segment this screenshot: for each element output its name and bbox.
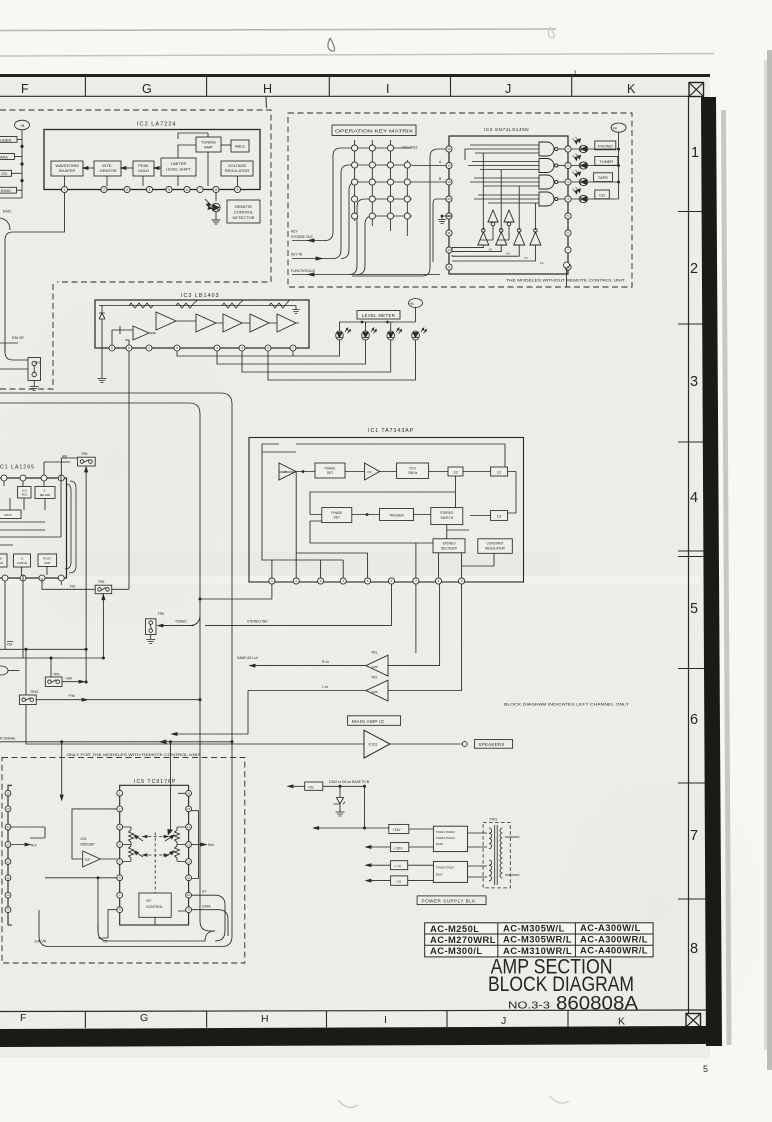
svg-text:APE: APE bbox=[0, 154, 8, 159]
svg-text:UNER: UNER bbox=[0, 137, 11, 142]
svg-text:4: 4 bbox=[690, 490, 698, 506]
svg-text:SWITCH: SWITCH bbox=[441, 516, 454, 520]
svg-text:+ 20V: + 20V bbox=[394, 846, 404, 850]
svg-text:STEREO: STEREO bbox=[440, 511, 454, 515]
svg-text:C1 LA1265: C1 LA1265 bbox=[0, 465, 35, 471]
svg-text:CD: CD bbox=[599, 192, 605, 197]
svg-text:AC-A300WR/L: AC-A300WR/L bbox=[580, 933, 648, 944]
svg-text:TR103,TR104: TR103,TR104 bbox=[436, 836, 455, 840]
svg-text:3: 3 bbox=[567, 180, 569, 184]
svg-text:14: 14 bbox=[506, 252, 510, 256]
svg-text:8: 8 bbox=[690, 941, 698, 957]
svg-text:5: 5 bbox=[690, 601, 698, 617]
svg-text:IC101: IC101 bbox=[369, 743, 378, 747]
svg-text:12: 12 bbox=[540, 261, 544, 265]
svg-text:16: 16 bbox=[447, 147, 451, 151]
svg-text:9: 9 bbox=[237, 188, 239, 192]
svg-text:9: 9 bbox=[448, 265, 450, 269]
svg-text:AMP: AMP bbox=[372, 690, 379, 694]
svg-text:5: 5 bbox=[703, 1064, 708, 1074]
svg-text:L ch: L ch bbox=[322, 685, 328, 689]
svg-text:T21~T316: T21~T316 bbox=[402, 146, 418, 150]
svg-text:+5V: +5V bbox=[308, 786, 315, 790]
svg-text:NO.3-3: NO.3-3 bbox=[508, 1001, 551, 1012]
svg-text:+13V: +13V bbox=[393, 828, 402, 832]
svg-text:G: G bbox=[142, 82, 152, 96]
svg-text:TR101,TR102: TR101,TR102 bbox=[436, 830, 455, 834]
svg-text:76KHz: 76KHz bbox=[408, 471, 418, 475]
svg-text:D105: D105 bbox=[436, 842, 444, 846]
svg-text:MAIN AMP IC: MAIN AMP IC bbox=[352, 719, 385, 724]
svg-text:DETECTOR: DETECTOR bbox=[233, 215, 255, 220]
svg-text:8: 8 bbox=[567, 265, 569, 269]
svg-text:I: I bbox=[384, 1014, 387, 1026]
svg-text:KEY: KEY bbox=[291, 230, 299, 234]
svg-text:S -: S - bbox=[43, 489, 47, 493]
svg-text:S: S bbox=[21, 557, 23, 561]
svg-text:TR2: TR2 bbox=[371, 676, 377, 680]
svg-text:T901: T901 bbox=[490, 818, 498, 822]
svg-text:REMOTE: REMOTE bbox=[235, 204, 252, 209]
svg-text:TR8: TR8 bbox=[81, 452, 88, 456]
svg-text:J: J bbox=[505, 82, 511, 96]
svg-text:11: 11 bbox=[7, 876, 10, 880]
svg-text:860808A: 860808A bbox=[556, 994, 638, 1015]
svg-text:PHASE: PHASE bbox=[325, 467, 336, 471]
svg-text:AM: AM bbox=[62, 455, 67, 459]
svg-text:TAPE: TAPE bbox=[598, 175, 608, 180]
svg-text:13: 13 bbox=[447, 197, 451, 201]
svg-text:AC-M305WR/L: AC-M305WR/L bbox=[503, 934, 572, 945]
svg-text:15: 15 bbox=[7, 807, 10, 811]
svg-text:TR5: TR5 bbox=[158, 612, 165, 616]
svg-text:FM: FM bbox=[70, 585, 75, 589]
svg-text:K: K bbox=[627, 82, 636, 96]
svg-text:+B: +B bbox=[409, 302, 414, 306]
svg-text:TUNER: TUNER bbox=[599, 159, 613, 164]
svg-text:-GRATOR: -GRATOR bbox=[98, 168, 116, 173]
svg-text:TRIGGER: TRIGGER bbox=[389, 513, 404, 517]
svg-text:AM-IF: AM-IF bbox=[4, 513, 12, 517]
svg-text:3: 3 bbox=[690, 374, 698, 390]
svg-text:K: K bbox=[618, 1016, 625, 1028]
svg-text:− 7V: − 7V bbox=[394, 880, 402, 884]
svg-text:TR9: TR9 bbox=[53, 673, 60, 677]
svg-text:6: 6 bbox=[186, 188, 188, 192]
svg-text:5: 5 bbox=[567, 214, 569, 218]
svg-text:METER: METER bbox=[40, 493, 51, 497]
svg-text:F: F bbox=[21, 82, 29, 96]
svg-text:PHASE: PHASE bbox=[331, 511, 342, 515]
svg-text:IC6: IC6 bbox=[81, 837, 87, 841]
svg-text:IC1 TA7343AP: IC1 TA7343AP bbox=[368, 428, 414, 434]
svg-text:ONLY FOR THE MODELES WITH REMO: ONLY FOR THE MODELES WITH REMOTE CONTROL… bbox=[66, 753, 200, 757]
svg-text:CURVE: CURVE bbox=[17, 561, 27, 565]
svg-text:SPEAKERS: SPEAKERS bbox=[479, 742, 505, 747]
svg-text:KEY IN: KEY IN bbox=[291, 253, 303, 257]
svg-text:FUNCTION A,B: FUNCTION A,B bbox=[291, 269, 315, 273]
svg-text:8: 8 bbox=[215, 188, 217, 192]
svg-text:1: 1 bbox=[691, 145, 699, 161]
svg-text:10: 10 bbox=[187, 893, 190, 897]
svg-text:R SIGNAL: R SIGNAL bbox=[0, 737, 16, 741]
svg-text:VCO: VCO bbox=[409, 467, 416, 471]
svg-text:F: F bbox=[20, 1012, 26, 1024]
svg-text:4: 4 bbox=[149, 188, 151, 192]
svg-text:TR1: TR1 bbox=[371, 651, 377, 655]
svg-text:16: 16 bbox=[7, 791, 10, 795]
svg-text:+ 7V: + 7V bbox=[394, 865, 402, 869]
svg-text:EMC: EMC bbox=[3, 210, 12, 214]
svg-text:LIMITER: LIMITER bbox=[171, 161, 187, 166]
svg-text:AMP: AMP bbox=[204, 145, 213, 150]
svg-text:+FM: +FM bbox=[68, 694, 75, 698]
svg-text:D162 or D5 on BASE PCB: D162 or D5 on BASE PCB bbox=[329, 780, 370, 784]
svg-text:3: 3 bbox=[126, 188, 128, 192]
svg-text:14: 14 bbox=[187, 825, 190, 829]
svg-text:ADJ: ADJ bbox=[21, 493, 27, 497]
svg-text:LEVEL SHIFT: LEVEL SHIFT bbox=[166, 167, 192, 172]
svg-text:OPERATION KEY MATRIX: OPERATION KEY MATRIX bbox=[335, 129, 414, 135]
svg-text:1/2: 1/2 bbox=[497, 515, 502, 519]
svg-text:BLOCK DIAGRAM INDICATES LEFT C: BLOCK DIAGRAM INDICATES LEFT CHANNEL ONL… bbox=[504, 702, 630, 706]
svg-text:14: 14 bbox=[7, 825, 10, 829]
svg-text:CONSTANT: CONSTANT bbox=[486, 542, 503, 546]
svg-text:REGULATOR: REGULATOR bbox=[225, 168, 250, 173]
svg-text:IC3 LB1403: IC3 LB1403 bbox=[181, 293, 219, 299]
svg-text:AMP: AMP bbox=[44, 561, 51, 565]
svg-text:DATA: DATA bbox=[202, 905, 211, 909]
svg-text:STEREO: STEREO bbox=[442, 542, 456, 546]
svg-text:TR106,TR107: TR106,TR107 bbox=[436, 866, 455, 870]
svg-text:AC-M305W/L: AC-M305W/L bbox=[503, 923, 565, 934]
svg-text:E/M VR: E/M VR bbox=[12, 336, 24, 340]
svg-text:CD: CD bbox=[2, 171, 8, 176]
svg-text:TR6: TR6 bbox=[98, 580, 105, 584]
svg-text:G: G bbox=[140, 1012, 148, 1024]
svg-text:2: 2 bbox=[690, 261, 698, 277]
svg-text:IC5 TC9176P: IC5 TC9176P bbox=[134, 779, 176, 785]
svg-text:M5218P: M5218P bbox=[81, 843, 96, 847]
svg-text:STORBE OUT: STORBE OUT bbox=[291, 235, 313, 239]
svg-text:6: 6 bbox=[567, 231, 569, 235]
svg-text:CONTROL: CONTROL bbox=[146, 905, 163, 909]
svg-text:13: 13 bbox=[187, 843, 190, 847]
svg-text:FM: FM bbox=[7, 643, 12, 647]
svg-text:7: 7 bbox=[690, 828, 698, 844]
svg-text:BUF: BUF bbox=[85, 858, 91, 862]
svg-text:14: 14 bbox=[447, 180, 451, 184]
svg-text:E/M VR: E/M VR bbox=[35, 940, 47, 944]
svg-text:DET: DET bbox=[327, 471, 333, 475]
svg-text:ST: ST bbox=[202, 890, 206, 894]
svg-text:TR7: TR7 bbox=[34, 361, 41, 365]
svg-text:7: 7 bbox=[567, 248, 569, 252]
svg-text:1/2: 1/2 bbox=[453, 471, 458, 475]
svg-text:VR: VR bbox=[146, 899, 151, 903]
svg-text:AC-M270WRL: AC-M270WRL bbox=[430, 934, 496, 945]
svg-text:THE MODELES WITHOUT REMOTE CON: THE MODELES WITHOUT REMOTE CONTROL UNIT bbox=[506, 279, 626, 283]
svg-text:15: 15 bbox=[447, 164, 451, 168]
svg-text:POWER SUPPLY BLK: POWER SUPPLY BLK bbox=[422, 898, 477, 903]
svg-text:13: 13 bbox=[524, 256, 528, 260]
svg-text:Rch: Rch bbox=[31, 843, 37, 847]
svg-text:2: 2 bbox=[567, 164, 569, 168]
svg-text:5: 5 bbox=[168, 188, 170, 192]
svg-text:HOLD: HOLD bbox=[138, 168, 149, 173]
svg-text:TR10: TR10 bbox=[30, 690, 38, 694]
svg-text:STEREO IND: STEREO IND bbox=[247, 620, 268, 624]
svg-text:1/2: 1/2 bbox=[497, 471, 502, 475]
svg-text:Rch: Rch bbox=[208, 843, 214, 847]
svg-text:PHONO: PHONO bbox=[598, 143, 613, 148]
svg-text:4: 4 bbox=[567, 197, 569, 201]
svg-text:SHAPER: SHAPER bbox=[59, 168, 76, 173]
svg-text:10: 10 bbox=[447, 248, 451, 252]
svg-text:R ch: R ch bbox=[322, 660, 329, 664]
svg-text:DECODER: DECODER bbox=[441, 547, 458, 551]
svg-text:I: I bbox=[386, 82, 389, 96]
svg-text:DET: DET bbox=[334, 516, 340, 520]
svg-text:+B: +B bbox=[612, 126, 617, 130]
svg-text:TUNED: TUNED bbox=[175, 620, 187, 624]
svg-text:BLOCK DIAGRAM: BLOCK DIAGRAM bbox=[488, 972, 634, 996]
svg-text:+B: +B bbox=[20, 124, 25, 128]
svg-text:POST: POST bbox=[43, 557, 51, 561]
svg-text:12: 12 bbox=[187, 860, 190, 864]
svg-text:6: 6 bbox=[690, 712, 698, 728]
svg-text:16: 16 bbox=[187, 791, 190, 795]
svg-text:11: 11 bbox=[447, 231, 450, 235]
svg-text:1: 1 bbox=[567, 147, 569, 151]
svg-text:IC2 LA7224: IC2 LA7224 bbox=[137, 122, 177, 128]
svg-text:10: 10 bbox=[7, 893, 10, 897]
svg-text:CX: CX bbox=[103, 940, 108, 944]
svg-text:2: 2 bbox=[103, 188, 105, 192]
svg-text:IC2 SN74LS145N: IC2 SN74LS145N bbox=[484, 127, 529, 133]
svg-text:J: J bbox=[501, 1015, 506, 1027]
svg-text:LEVEL METER: LEVEL METER bbox=[362, 313, 395, 318]
svg-text:15: 15 bbox=[489, 248, 493, 252]
svg-text:13: 13 bbox=[7, 843, 10, 847]
svg-text:ABLE: ABLE bbox=[235, 144, 246, 149]
svg-text:12: 12 bbox=[447, 214, 451, 218]
svg-text:AC-M250L: AC-M250L bbox=[430, 923, 479, 934]
svg-text:AC-M300/L: AC-M300/L bbox=[430, 945, 483, 956]
svg-text:15: 15 bbox=[187, 807, 190, 811]
svg-text:+AM: +AM bbox=[65, 677, 72, 681]
svg-text:CONTROL: CONTROL bbox=[234, 210, 254, 215]
svg-text:AMP: AMP bbox=[372, 665, 379, 669]
svg-text:7: 7 bbox=[199, 188, 201, 192]
svg-text:AF: AF bbox=[283, 470, 287, 474]
svg-text:12: 12 bbox=[7, 860, 10, 864]
svg-text:AC-A300W/L: AC-A300W/L bbox=[580, 922, 641, 933]
svg-text:H: H bbox=[261, 1013, 269, 1025]
svg-text:SAME AS Lch: SAME AS Lch bbox=[237, 656, 258, 660]
svg-text:D107: D107 bbox=[436, 873, 444, 877]
svg-text:REGULATOR: REGULATOR bbox=[485, 547, 505, 551]
svg-text:H: H bbox=[263, 82, 272, 96]
svg-text:HONO: HONO bbox=[0, 188, 11, 193]
svg-text:1: 1 bbox=[64, 188, 66, 192]
